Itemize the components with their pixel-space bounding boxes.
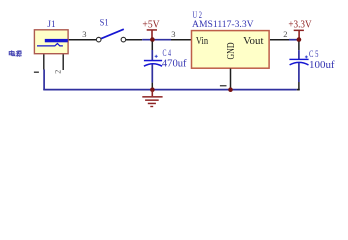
svg-text:Vout: Vout xyxy=(243,36,263,47)
svg-text:3: 3 xyxy=(82,29,86,39)
svg-text:C 4: C 4 xyxy=(163,48,172,58)
svg-text:2: 2 xyxy=(283,29,287,39)
svg-text:GND: GND xyxy=(226,43,237,60)
svg-text:+5V: +5V xyxy=(142,20,160,31)
svg-text:C 5: C 5 xyxy=(309,49,319,59)
svg-text:S1: S1 xyxy=(100,17,109,27)
svg-text:+3.3V: +3.3V xyxy=(288,20,312,31)
svg-text:Vin: Vin xyxy=(196,36,209,47)
svg-text:470uf: 470uf xyxy=(162,58,187,69)
svg-text:J1: J1 xyxy=(47,19,55,29)
svg-text:100uf: 100uf xyxy=(309,60,335,71)
svg-text:2: 2 xyxy=(53,70,62,74)
svg-text:3: 3 xyxy=(171,29,175,39)
svg-text:AMS1117-3.3V: AMS1117-3.3V xyxy=(192,20,254,30)
